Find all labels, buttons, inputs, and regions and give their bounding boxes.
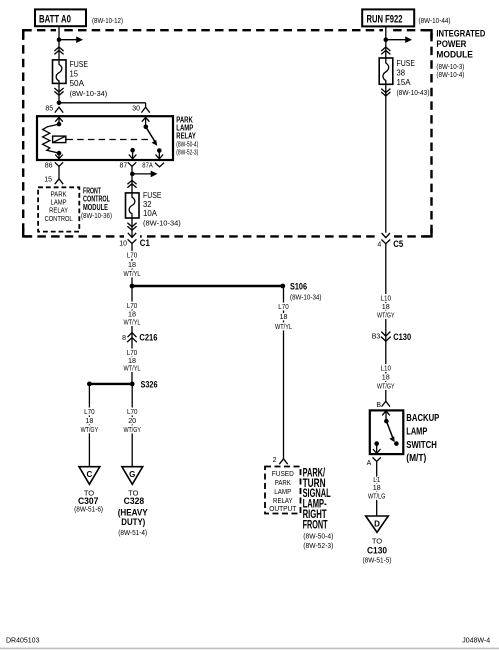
svg-text:(8W-10-34): (8W-10-34) xyxy=(143,219,181,228)
svg-text:MODULE: MODULE xyxy=(436,50,473,61)
wire RUN F922 feed down xyxy=(385,26,387,58)
white gap for connector C5 on boundary xyxy=(378,232,394,240)
connector break chevrons below fuse 15 xyxy=(54,88,63,92)
svg-text:2: 2 xyxy=(273,457,277,464)
svg-text:INTEGRATED: INTEGRATED xyxy=(436,28,485,39)
svg-text:B: B xyxy=(376,402,381,409)
svg-text:C307: C307 xyxy=(78,496,99,507)
connector C1 male half xyxy=(128,233,136,238)
svg-text:85: 85 xyxy=(45,105,53,112)
wire pin 87 down to fuse 32 xyxy=(131,166,133,193)
off-page connector triangle G xyxy=(122,467,143,485)
svg-text:87: 87 xyxy=(120,163,128,170)
fuse 38 (15A) xyxy=(379,58,393,84)
svg-text:30: 30 xyxy=(132,105,140,112)
relay coil resistor element xyxy=(43,124,59,153)
relay terminal arrow pin 87 xyxy=(132,150,134,159)
connector break chevrons below fuse 32 xyxy=(127,223,136,227)
pin 87A unconnected female terminal xyxy=(155,163,164,167)
connector C216 xyxy=(128,333,137,338)
svg-text:C328: C328 xyxy=(124,496,145,507)
svg-text:(8W-51-5): (8W-51-5) xyxy=(363,558,392,565)
svg-text:TO: TO xyxy=(372,537,382,546)
svg-text:32: 32 xyxy=(143,200,152,209)
svg-text:WT/LG: WT/LG xyxy=(368,491,386,500)
relay terminal arrow pin 87A xyxy=(158,151,160,159)
svg-text:WT/YL: WT/YL xyxy=(124,269,141,278)
wire L70 18 WT/GY to C307 xyxy=(88,384,90,467)
svg-text:CONTROL: CONTROL xyxy=(45,214,73,223)
svg-text:10: 10 xyxy=(119,240,127,247)
svg-text:L10: L10 xyxy=(381,364,392,373)
relay coil terminal arrow pin 85 xyxy=(58,117,60,124)
wire fuse 32 to connector C1 xyxy=(131,218,133,237)
node splice left branch xyxy=(87,382,92,387)
svg-text:PARK: PARK xyxy=(275,478,291,487)
svg-text:38: 38 xyxy=(397,69,406,78)
svg-text:FUSED: FUSED xyxy=(272,469,295,478)
node switch contact xyxy=(394,441,399,446)
svg-text:8: 8 xyxy=(122,335,126,342)
connector break chevrons below fuse 38 xyxy=(381,89,390,93)
connector C5 female half xyxy=(381,240,390,244)
svg-text:WT/YL: WT/YL xyxy=(124,363,141,372)
svg-text:87A: 87A xyxy=(142,162,153,169)
wire fuse 38 down to C5 xyxy=(385,84,387,233)
node relay coil bottom xyxy=(57,151,62,156)
connector break chevrons above fuse 38 xyxy=(381,47,390,51)
svg-text:C130: C130 xyxy=(393,332,411,343)
wire L1 18 WT/LG to C130 xyxy=(376,461,378,516)
splice S326 xyxy=(89,383,132,385)
svg-text:RELAY: RELAY xyxy=(176,131,196,140)
pin 15 male terminal xyxy=(55,179,63,184)
white gap for BATT wire crossing boundary xyxy=(56,28,62,33)
svg-text:LAMP: LAMP xyxy=(406,425,427,437)
connector break chevrons above fuse 15 xyxy=(54,47,63,51)
pin 86 female terminal xyxy=(55,162,63,166)
footer rule xyxy=(0,648,499,650)
connector C5 male half xyxy=(382,233,390,238)
svg-text:4: 4 xyxy=(377,242,381,249)
power source box BATT A0 xyxy=(35,9,86,26)
node switch output xyxy=(374,441,379,446)
wire to pin 30 xyxy=(145,103,147,107)
connector break chevrons above fuse 32 xyxy=(127,180,136,184)
switch terminal arrow pin A xyxy=(376,444,378,454)
svg-text:(8W-52-3): (8W-52-3) xyxy=(176,149,198,156)
svg-text:C5: C5 xyxy=(393,239,404,250)
node RUN feed junction xyxy=(384,37,389,42)
pin 87 female terminal xyxy=(128,162,136,166)
relay actuation dashed link xyxy=(67,139,151,141)
svg-text:WT/YL: WT/YL xyxy=(124,317,141,326)
wire L70 18 WT/YL main run xyxy=(131,244,133,384)
svg-text:15: 15 xyxy=(70,70,79,79)
svg-text:C130: C130 xyxy=(367,545,387,556)
wire L70 18 WT/YL to park-turn lamp xyxy=(283,286,285,459)
backup switch blade xyxy=(386,421,393,439)
svg-text:86: 86 xyxy=(45,163,53,170)
node relay coil top xyxy=(57,122,62,127)
svg-text:L70: L70 xyxy=(84,407,95,416)
svg-text:D: D xyxy=(374,519,380,528)
feed arrow to other circuits xyxy=(59,39,78,41)
svg-text:L70: L70 xyxy=(278,302,289,311)
svg-text:WT/YL: WT/YL xyxy=(275,322,292,331)
svg-text:L70: L70 xyxy=(127,251,138,260)
relay coil symbol xyxy=(53,136,66,143)
connector C130 xyxy=(381,332,390,337)
svg-text:(8W-10-12): (8W-10-12) xyxy=(92,16,123,25)
svg-text:S326: S326 xyxy=(141,379,158,390)
svg-text:J048W-4: J048W-4 xyxy=(462,638,490,645)
switch terminal arrow pin B xyxy=(385,411,387,421)
svg-text:FUSE: FUSE xyxy=(143,191,162,200)
svg-text:15: 15 xyxy=(44,177,52,184)
svg-text:BACKUP: BACKUP xyxy=(406,412,439,424)
node 87 output junction xyxy=(130,172,135,177)
wire L10 18 WT/GY run xyxy=(385,244,387,401)
svg-text:RUN F922: RUN F922 xyxy=(367,13,403,25)
splice S106 xyxy=(280,284,285,289)
svg-text:B3: B3 xyxy=(372,334,381,341)
svg-text:10A: 10A xyxy=(143,209,158,218)
svg-text:FUSE: FUSE xyxy=(70,60,89,69)
svg-text:(8W-10-36): (8W-10-36) xyxy=(81,211,112,220)
svg-text:(8W-10-34): (8W-10-34) xyxy=(70,89,108,98)
pin 85 male terminal xyxy=(55,107,63,112)
svg-text:BATT A0: BATT A0 xyxy=(39,13,71,25)
svg-text:18: 18 xyxy=(128,260,136,269)
fuse 32 (10A) xyxy=(126,193,140,218)
wire pin 86 to FCM pin 15 xyxy=(58,166,60,179)
node splice junction to S106 xyxy=(130,284,135,289)
feed arrow to other circuits xyxy=(132,173,152,175)
svg-text:OUTPUT: OUTPUT xyxy=(269,504,296,513)
svg-text:C216: C216 xyxy=(139,333,157,344)
svg-text:18: 18 xyxy=(85,416,93,425)
fuse 15 (50A) xyxy=(53,60,67,84)
svg-text:(8W-10-44): (8W-10-44) xyxy=(419,16,451,25)
svg-text:(8W-51-6): (8W-51-6) xyxy=(74,507,103,514)
relay coil terminal arrow pin 86 xyxy=(58,153,60,159)
svg-text:(8W-52-3): (8W-52-3) xyxy=(303,541,333,550)
node relay contact 87 xyxy=(130,148,135,153)
svg-text:WT/GY: WT/GY xyxy=(377,310,395,319)
node fuse output junction xyxy=(57,101,62,106)
svg-text:FRONT: FRONT xyxy=(303,519,328,531)
svg-text:A: A xyxy=(367,460,372,467)
svg-text:18: 18 xyxy=(280,312,288,321)
splice S326 xyxy=(130,382,135,387)
svg-text:DR405103: DR405103 xyxy=(6,638,40,645)
svg-text:L70: L70 xyxy=(127,407,138,416)
pin B male terminal xyxy=(382,401,390,406)
svg-text:POWER: POWER xyxy=(436,39,466,50)
wire fuse 15 to relay pins xyxy=(58,83,60,102)
off-page connector triangle C xyxy=(79,467,100,485)
svg-text:(8W-50-4): (8W-50-4) xyxy=(303,532,333,541)
svg-text:WT/GY: WT/GY xyxy=(377,382,395,391)
pin 30 male terminal xyxy=(141,107,149,112)
svg-text:(8W-50-4): (8W-50-4) xyxy=(176,141,198,148)
power source box RUN F922 xyxy=(362,9,414,26)
park lamp relay box xyxy=(37,116,173,160)
svg-text:18: 18 xyxy=(382,373,390,382)
park/turn signal lamp box (dashed) xyxy=(265,467,301,514)
svg-text:15A: 15A xyxy=(397,78,412,87)
node BATT feed junction xyxy=(57,37,62,42)
svg-text:WT/GY: WT/GY xyxy=(81,425,99,434)
svg-text:WT/GY: WT/GY xyxy=(123,425,141,434)
wire L70 20 WT/GY to C328 xyxy=(131,384,133,467)
integrated power module boundary (dashed) xyxy=(23,30,431,236)
splice bar to S106 xyxy=(132,285,283,287)
svg-text:(8W-10-43): (8W-10-43) xyxy=(397,88,430,97)
white gap for connector C1 on boundary xyxy=(124,232,140,240)
svg-text:(8W-10-34): (8W-10-34) xyxy=(290,293,322,302)
svg-text:G: G xyxy=(129,470,135,479)
backup lamp switch box xyxy=(370,410,404,454)
svg-text:SWITCH: SWITCH xyxy=(406,439,437,451)
node relay contact 87A xyxy=(157,148,162,153)
svg-text:(8W-10-4): (8W-10-4) xyxy=(436,70,464,79)
svg-text:C1: C1 xyxy=(140,238,151,249)
svg-text:(M/T): (M/T) xyxy=(406,452,426,464)
svg-text:50A: 50A xyxy=(70,79,85,88)
white gap for RUN wire crossing boundary xyxy=(383,28,389,33)
connector C1 female half xyxy=(128,239,137,243)
svg-text:LAMP: LAMP xyxy=(274,487,291,496)
pin 2 male terminal xyxy=(279,459,287,464)
front control module box (dashed) xyxy=(38,187,79,231)
svg-text:(8W-51-4): (8W-51-4) xyxy=(118,530,147,537)
svg-text:DUTY): DUTY) xyxy=(121,517,145,528)
node switch common xyxy=(384,419,389,424)
relay switch blade xyxy=(146,127,156,142)
svg-text:S106: S106 xyxy=(290,282,307,293)
svg-text:20: 20 xyxy=(128,416,136,425)
wire BATT A0 feed down xyxy=(58,26,60,60)
pin A female terminal xyxy=(373,457,381,461)
node relay switch common xyxy=(144,125,149,130)
off-page connector triangle D xyxy=(366,516,389,532)
feed arrow to other circuits xyxy=(386,39,407,41)
svg-text:FUSE: FUSE xyxy=(397,59,416,68)
svg-text:C: C xyxy=(87,470,93,479)
relay common terminal arrow pin 30 xyxy=(145,117,147,126)
wire bus to pin 30 xyxy=(59,102,146,104)
